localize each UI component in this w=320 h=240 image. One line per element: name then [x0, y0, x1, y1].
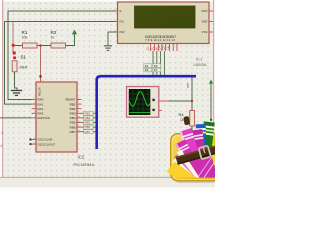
svg-text:D6: D6 — [145, 68, 149, 72]
svg-text:OSC1/CLKIN: OSC1/CLKIN — [38, 139, 53, 142]
blue book — [196, 124, 208, 184]
svg-text:10k: 10k — [22, 35, 28, 39]
oscilloscope screen — [129, 89, 151, 115]
canvas bottom edge line — [0, 177, 215, 178]
white page blade — [177, 149, 206, 189]
svg-text:RA4/T0CKI: RA4/T0CKI — [38, 117, 51, 120]
svg-text:VDD: VDD — [201, 9, 208, 13]
LCD left pin labels — [120, 9, 125, 34]
svg-text:RB4: RB4 — [85, 116, 91, 120]
svg-text:D5: D5 — [154, 64, 158, 68]
LCD screen — [135, 6, 196, 28]
wires D4-D7 down to bus — [153, 51, 164, 75]
LCD left pin stubs — [114, 11, 118, 32]
pin number MCLR — [42, 80, 44, 82]
svg-text:1k: 1k — [51, 35, 55, 39]
wire MCLR drop — [40, 46, 42, 78]
LCD data pin names row — [145, 35, 176, 39]
wire RA4 long from left edge — [0, 117, 32, 119]
wire label D6 — [144, 68, 152, 72]
white page blade 2 — [172, 158, 204, 191]
wire RS tap down to button node — [12, 22, 14, 46]
svg-text:RB1: RB1 — [70, 102, 76, 106]
wire RB7 from bus down to R4 — [191, 77, 193, 111]
svg-text:VSS: VSS — [201, 30, 207, 34]
wire R4 down — [191, 126, 193, 140]
svg-text:RA3: RA3 — [38, 112, 44, 116]
resistor R2 — [51, 30, 66, 48]
wire RS: LCD RS pin to left edge, down, to RA1 — [5, 22, 118, 105]
schematic canvas with dot grid — [3, 2, 213, 178]
pink book 2 — [180, 128, 208, 187]
svg-text:1k: 1k — [180, 118, 184, 122]
yellow blade — [167, 161, 205, 194]
svg-text:RA1: RA1 — [38, 102, 44, 106]
LCD right pin stubs — [209, 11, 213, 32]
wire button to ground — [15, 72, 18, 91]
svg-text:OSC2/CLKOUT: OSC2/CLKOUT — [38, 143, 56, 146]
svg-text:RB2: RB2 — [70, 107, 76, 111]
svg-text:RB7: RB7 — [186, 82, 190, 88]
wire label RB6 — [84, 125, 94, 129]
wire label RB5 — [84, 121, 94, 125]
pin numbers IC2 right — [78, 98, 81, 132]
svg-text:RB6: RB6 — [70, 125, 76, 129]
icon book fan — [167, 121, 226, 194]
IC2 left pin labels — [38, 98, 56, 147]
svg-text:RB0/INT: RB0/INT — [66, 98, 76, 102]
icon belt — [176, 144, 223, 165]
svg-text:RB6: RB6 — [85, 125, 91, 129]
green book — [196, 121, 214, 184]
power VCC arrow right — [209, 79, 213, 83]
left edge text 2 — [1, 130, 4, 135]
pin numbers LCD left — [114, 9, 116, 32]
svg-text:IC1: IC1 — [196, 57, 203, 62]
left edge text 4 — [0, 143, 3, 148]
pin stub scope A — [159, 100, 168, 102]
svg-text:LM016L: LM016L — [194, 63, 208, 67]
tiny net labels under LCD — [147, 45, 170, 52]
junction MCLR dot — [39, 44, 41, 46]
microcontroller IC2 PIC16F84A body — [36, 82, 77, 152]
svg-text:KBIT: KBIT — [20, 66, 29, 70]
ground 2 — [104, 46, 112, 51]
svg-text:RS: RS — [120, 20, 124, 24]
svg-text:RB3: RB3 — [85, 111, 91, 115]
svg-text:PIC16F84A: PIC16F84A — [74, 162, 95, 167]
pink page border left — [2, 0, 3, 178]
wire RW to ground — [108, 32, 118, 45]
oscilloscope body — [127, 87, 159, 118]
wire label D7 — [153, 68, 161, 72]
wires RB3-RB7 to bus — [82, 113, 97, 131]
oscilloscope pin B marker — [152, 109, 154, 111]
pin end mark OSC1 — [30, 139, 32, 141]
icon belt loop top — [183, 116, 190, 125]
wire VCC right down — [210, 84, 212, 120]
svg-text:RW: RW — [120, 30, 125, 34]
wire R2 to VCC arrow — [66, 34, 75, 46]
pink page stripe — [174, 154, 203, 190]
svg-text:S1: S1 — [21, 55, 27, 60]
svg-text:D7: D7 — [154, 68, 158, 72]
LCD pin numbers row — [145, 38, 175, 42]
svg-text:RB4: RB4 — [70, 116, 76, 120]
svg-text:VEE: VEE — [201, 20, 207, 24]
page background white — [0, 0, 215, 193]
svg-text:D4: D4 — [145, 64, 149, 68]
LCD right pin labels — [201, 9, 208, 34]
pink book 3 — [189, 129, 210, 185]
button S1 stub from node — [12, 46, 14, 52]
wire node A to R1 — [13, 45, 23, 47]
wire label RB4 — [84, 116, 94, 120]
IC2 right pin stubs RB0-RB7 — [77, 100, 82, 132]
IC1 reference labels — [194, 57, 208, 67]
svg-text:7 8 9 10 11 12 13 14: 7 8 9 10 11 12 13 14 — [145, 38, 175, 42]
icon shadow — [173, 137, 219, 184]
wire label RB7 — [84, 130, 94, 134]
pin stub scope B — [159, 110, 162, 112]
oscilloscope pin A marker — [152, 99, 154, 101]
svg-text:IC2: IC2 — [78, 155, 85, 160]
pin mark on VCC wire — [210, 119, 212, 121]
svg-text:RB5: RB5 — [85, 121, 91, 125]
LCD IC1 LM016L body — [118, 2, 210, 44]
ground 1 — [11, 91, 22, 96]
button S1 contact dot — [13, 51, 16, 54]
junction node A dot — [12, 44, 15, 47]
wire scope A to RB7 node — [168, 100, 192, 102]
junction scope/R4 dot — [191, 100, 193, 102]
wire label D4 — [144, 64, 152, 68]
icon golden rounded square — [171, 134, 220, 181]
svg-text:RB3: RB3 — [70, 112, 76, 116]
svg-text:RB7: RB7 — [85, 130, 91, 134]
pink bottom wedge — [192, 151, 215, 178]
wire E: LCD E pin to left edge, down, to RA0 — [8, 11, 118, 100]
button S1 body — [12, 55, 28, 72]
svg-text:RA2: RA2 — [38, 107, 44, 111]
net label RB7 vertical — [186, 82, 190, 88]
pin end mark OSC2 — [30, 143, 32, 145]
pin end mark MCLR — [39, 75, 41, 77]
IC2 reference labels — [74, 155, 95, 168]
IC2 left pin stubs RA0-RA4 — [32, 100, 37, 145]
wire label D5 — [153, 64, 161, 68]
svg-text:RB5: RB5 — [70, 121, 76, 125]
pink book 1 — [175, 139, 208, 189]
band below canvas — [0, 178, 215, 188]
resistor R4 — [179, 111, 195, 127]
LCD bottom pin stubs D0-D7 — [151, 44, 177, 52]
power VCC arrow left — [72, 30, 77, 35]
icon belt buckle — [199, 146, 211, 160]
svg-text:RA0: RA0 — [38, 98, 44, 102]
wire label RB3 — [84, 111, 94, 115]
yellow book — [202, 127, 225, 185]
svg-text:R4: R4 — [179, 112, 185, 117]
IC2 right pin labels — [66, 98, 76, 134]
svg-text:RB7: RB7 — [70, 130, 76, 134]
svg-text:MCLR: MCLR — [38, 87, 42, 96]
svg-text:E: E — [120, 9, 122, 13]
pink page border right — [213, 0, 214, 178]
pin stub MCLR — [40, 78, 42, 83]
resistor R1 — [22, 30, 38, 48]
bus (blue) — [97, 76, 196, 149]
button S1 contact dot 2 — [13, 56, 16, 59]
wire R1 to R2 — [37, 45, 51, 47]
pin numbers IC2 left — [33, 98, 36, 145]
